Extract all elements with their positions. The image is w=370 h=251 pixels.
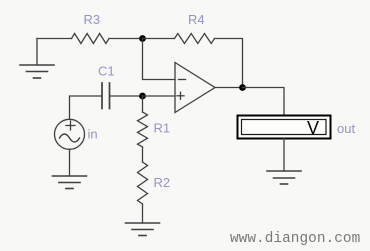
resistor R1 (138, 112, 148, 147)
ground G4 (below voltmeter) (267, 171, 301, 184)
wire node A down to inverting input (143, 39, 176, 80)
wire R1 to R2 (142, 147, 144, 162)
wire G1 to R3 (37, 38, 72, 40)
svg-text:R1: R1 (154, 121, 171, 136)
node A junction dot (139, 35, 146, 42)
svg-text:out: out (337, 121, 355, 136)
op-amp U1 (175, 63, 215, 113)
voltmeter V (out) (238, 116, 331, 139)
wire voltmeter to ground G4 (283, 139, 285, 172)
svg-text:www.diangon.com: www.diangon.com (230, 231, 360, 247)
wire node C to voltmeter (243, 88, 285, 116)
node B junction dot (139, 93, 146, 100)
svg-text:C1: C1 (98, 64, 115, 79)
wire node B down to R1 (142, 96, 144, 112)
wire node A to R4 (143, 38, 175, 40)
ground G3 (below R2) (126, 223, 160, 236)
resistor R2 (138, 162, 148, 204)
wire R2 to ground G3 (142, 204, 144, 223)
resistor R4 (175, 34, 215, 44)
svg-text:V: V (307, 118, 319, 138)
AC source V1 (55, 119, 85, 149)
wire node B to non-inverting input (143, 95, 176, 97)
resistor R3 (72, 34, 110, 44)
svg-text:R4: R4 (188, 12, 205, 27)
ground G2 (below V1) (53, 176, 87, 189)
wire V1 to ground G2 (69, 149, 71, 176)
wire op-amp output to node C (215, 87, 243, 89)
node C junction dot (output) (239, 84, 246, 91)
wire C1 to node B (110, 95, 143, 97)
wire R3 to node A (109, 38, 143, 40)
capacitor C1 (102, 83, 110, 109)
wire R4 right down to output node C (215, 39, 243, 88)
svg-text:in: in (88, 127, 98, 142)
ground G1 (top left) (20, 39, 54, 79)
svg-text:R3: R3 (84, 12, 101, 27)
wire V1 top to C1 (70, 96, 103, 119)
svg-text:R2: R2 (154, 175, 171, 190)
